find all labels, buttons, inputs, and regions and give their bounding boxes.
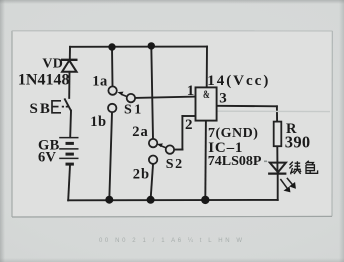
junction node bottom 2 (147, 196, 155, 204)
wire riser up to pin 2 level (181, 116, 183, 150)
LED VL (green) (268, 163, 295, 192)
wire Vcc drop to gate pin 14 (206, 47, 208, 88)
switch S1 contact 1a (108, 86, 116, 94)
svg-text:2b: 2b (133, 166, 150, 182)
svg-text:S2: S2 (166, 157, 184, 172)
svg-text:2a: 2a (132, 124, 149, 140)
svg-text:S1: S1 (124, 102, 144, 117)
wire LED to bottom rail (277, 174, 279, 200)
switch S1 contact 1b (108, 104, 116, 112)
wire left drop to diode (69, 47, 71, 60)
wire contact 2b down to bottom rail (151, 164, 153, 199)
wire pin3 corner down to resistor (276, 106, 278, 121)
wire SB to battery (69, 111, 72, 138)
battery GB plates (59, 138, 78, 165)
wire gate pin 7 to ground rail (204, 121, 207, 200)
wire diode to switch SB (68, 72, 70, 98)
switch S2 contact 2a (149, 139, 157, 147)
wire S1 common to gate pin 1 (135, 97, 195, 98)
wire top horizontal rail (Vcc) (70, 46, 207, 48)
switch S2 contact 2b (149, 156, 157, 164)
svg-text:74LS08P: 74LS08P (208, 154, 262, 169)
wire rail to contact 1a (111, 47, 114, 86)
svg-text:VD: VD (42, 56, 63, 71)
faint paper crease line (217, 110, 330, 112)
wire S2 common to riser (174, 149, 182, 151)
svg-text:&: & (203, 89, 210, 101)
svg-text:3: 3 (219, 91, 227, 107)
junction node top 1 (108, 43, 115, 50)
switch S1 wiper arrow (117, 92, 127, 97)
svg-text:1b: 1b (90, 114, 107, 130)
svg-text:390: 390 (285, 132, 311, 151)
switch S2 common contact (166, 145, 174, 153)
AND gate IC-1 (74LS08P) body (196, 87, 217, 120)
LED emission arrow 1 (280, 179, 287, 189)
svg-text:SB: SB (30, 101, 52, 117)
wire contact 1b down to bottom rail (109, 113, 112, 200)
svg-text:7(GND): 7(GND) (208, 126, 258, 141)
pushbutton SB symbol (52, 98, 71, 112)
footer page marks (99, 238, 249, 244)
wire into gate pin 2 (182, 115, 195, 117)
wire gate pin 3 output (217, 105, 277, 108)
junction node bottom 1 (105, 196, 113, 204)
wire resistor to LED (276, 146, 278, 173)
svg-text:6V: 6V (38, 149, 57, 165)
svg-text:1: 1 (187, 83, 195, 99)
svg-text:2: 2 (185, 117, 193, 133)
switch S2 wiper arrow (157, 143, 166, 148)
wire rail to contact 2a (151, 46, 153, 138)
svg-text:14(Vcc): 14(Vcc) (207, 73, 270, 89)
wire battery to bottom-left corner (68, 165, 70, 200)
svg-text:1a: 1a (92, 73, 108, 89)
resistor R body (274, 122, 282, 147)
junction node bottom 3 (ground) (201, 196, 209, 204)
LED emission arrow 2 (287, 178, 293, 185)
speck (264, 161, 267, 163)
label 绿色 (green) drawn strokes (289, 161, 317, 175)
schematic frame border (12, 31, 332, 217)
diode VD 1N4148 (61, 60, 78, 72)
svg-text:1N4148: 1N4148 (18, 72, 70, 89)
switch S1 common contact (127, 94, 135, 102)
wire bottom horizontal rail (68, 199, 278, 201)
junction node top 2 (148, 42, 155, 49)
